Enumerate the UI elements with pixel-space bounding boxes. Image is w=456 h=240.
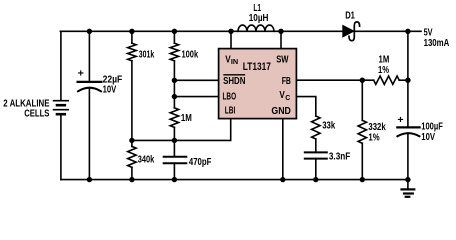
capacitor 22uF plates (78, 81, 102, 83)
node SW (278, 29, 283, 34)
node bottom 332k (360, 177, 365, 182)
capacitor 3.3nF plates (305, 151, 327, 153)
svg-text:SW: SW (276, 54, 289, 65)
node top 301k (129, 29, 134, 34)
svg-text:33k: 33k (322, 120, 335, 131)
ground symbol (402, 188, 415, 190)
node FB output (405, 78, 410, 83)
svg-text:1M: 1M (181, 113, 192, 124)
svg-text:130mA: 130mA (424, 38, 450, 49)
wire top rail left segment (60, 30, 342, 32)
svg-text:LBO: LBO (223, 92, 237, 103)
wire VC route (296, 97, 315, 116)
resistor R 301k (128, 43, 136, 61)
svg-text:+: + (78, 69, 84, 80)
diode D1 schottky bar (349, 22, 360, 41)
svg-text:10V: 10V (421, 132, 435, 143)
node 340k top (129, 138, 134, 143)
svg-text:1%: 1% (378, 65, 389, 76)
wire 100k column (173, 31, 175, 43)
wire battery top stub (60, 31, 62, 100)
node top 100k (172, 29, 177, 34)
wire battery bottom stub (60, 114, 62, 179)
svg-text:10V: 10V (103, 84, 117, 95)
svg-text:C: C (285, 93, 291, 102)
svg-text:CELLS: CELLS (24, 109, 49, 120)
svg-text:301k: 301k (139, 50, 155, 61)
diode D1 triangle (343, 25, 354, 37)
svg-text:1M: 1M (379, 54, 390, 65)
svg-text:2 ALKALINE: 2 ALKALINE (3, 98, 49, 109)
resistor R 33k (312, 116, 320, 139)
node 470pF top (172, 138, 177, 143)
resistor R 100k (170, 43, 178, 61)
svg-text:3.3nF: 3.3nF (329, 152, 350, 163)
svg-text:SHDN: SHDN (223, 76, 245, 87)
svg-text:470pF: 470pF (189, 157, 212, 168)
wire 332k column (361, 80, 363, 120)
node VIN (228, 29, 233, 34)
wire 22uF bottom (88, 88, 90, 180)
wire GND stub (282, 119, 284, 180)
resistor R 1M 1% horizontal (374, 76, 400, 84)
svg-text:D1: D1 (345, 10, 355, 21)
wire bottom rail (61, 179, 408, 181)
wire top rail right segment (355, 30, 421, 32)
wire 22uF top (88, 31, 90, 82)
wire VIN stub (230, 31, 232, 48)
capacitor 100uF plates (397, 126, 419, 128)
resistor R 1M (170, 108, 178, 127)
IC U1 LT1317 body (219, 49, 297, 119)
wire 301k column (131, 31, 133, 43)
node bottom 340k (129, 177, 134, 182)
svg-text:1%: 1% (368, 133, 379, 144)
node bottom 470pF (172, 177, 177, 182)
node FB (360, 78, 365, 83)
node output 5V (405, 29, 410, 34)
svg-text:340k: 340k (138, 155, 155, 166)
resistor R 340k (128, 146, 136, 167)
wire FB (296, 79, 373, 81)
wire LBI route (132, 119, 231, 141)
svg-text:FB: FB (282, 76, 291, 87)
svg-text:100k: 100k (182, 50, 199, 61)
svg-text:332k: 332k (368, 122, 386, 133)
wire output column (407, 31, 409, 127)
capacitor 470pF plates (164, 156, 187, 158)
svg-text:5V: 5V (424, 27, 433, 38)
svg-text:+: + (397, 115, 403, 126)
wire SW stub (280, 31, 282, 48)
node LBO divider (172, 94, 177, 99)
node SHDN divider (172, 78, 177, 83)
node bottom GND pin (280, 177, 285, 182)
wire LBO (174, 96, 218, 98)
svg-text:IN: IN (231, 57, 238, 66)
svg-text:GND: GND (271, 106, 291, 117)
node bottom ground (405, 177, 410, 182)
wire SHDN (174, 79, 218, 81)
battery 2 cells (54, 100, 69, 102)
svg-text:LT1317: LT1317 (243, 61, 271, 73)
node top 22uF (87, 29, 92, 34)
svg-text:10µH: 10µH (249, 13, 269, 24)
node bottom 22uF (87, 177, 92, 182)
inductor L1 (238, 25, 274, 31)
svg-text:LBI: LBI (225, 105, 236, 116)
resistor R 332k (358, 120, 366, 143)
node bottom 3.3nF (313, 177, 318, 182)
